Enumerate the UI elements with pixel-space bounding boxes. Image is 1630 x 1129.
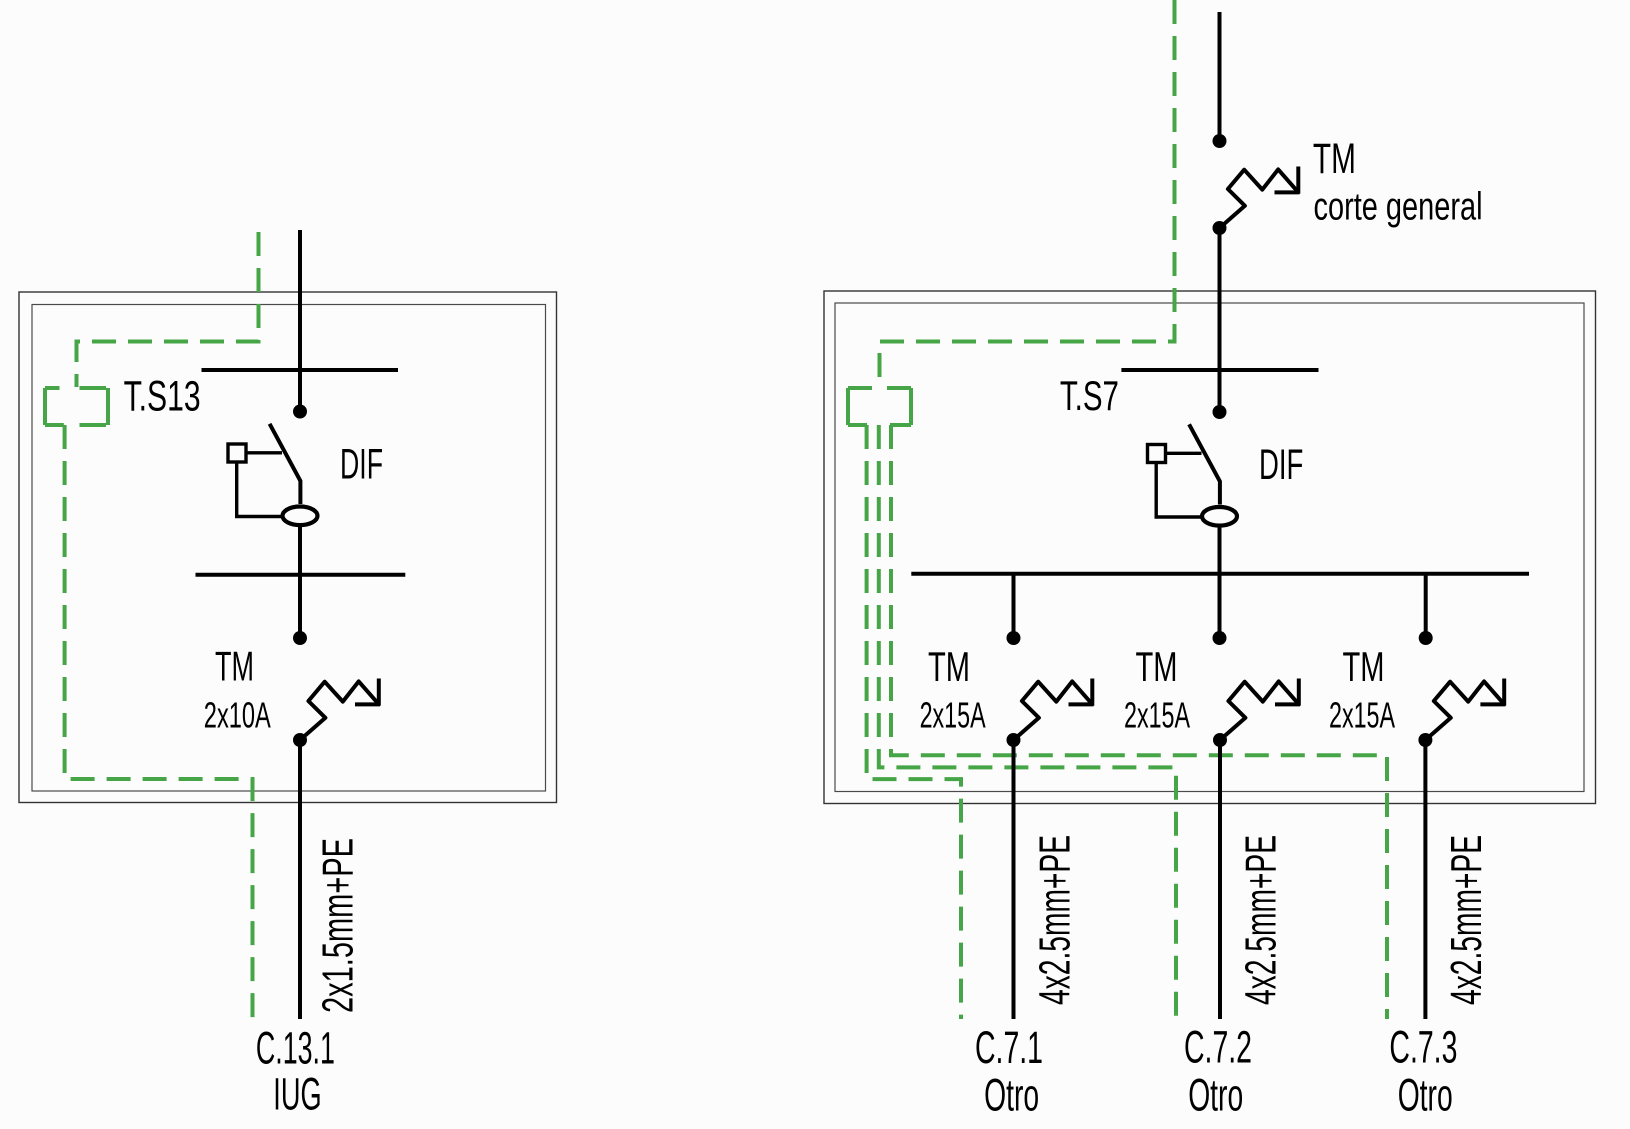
svg-text:corte general: corte general [1314, 185, 1483, 228]
svg-text:2x15A: 2x15A [1329, 695, 1395, 736]
svg-text:2x1.5mm+PE: 2x1.5mm+PE [314, 838, 363, 1013]
svg-text:TM: TM [1313, 135, 1356, 183]
svg-text:4x2.5mm+PE: 4x2.5mm+PE [1237, 835, 1286, 1005]
svg-text:DIF: DIF [1259, 441, 1303, 489]
svg-text:IUG: IUG [273, 1069, 321, 1120]
svg-text:TM: TM [215, 643, 254, 690]
svg-text:TM: TM [1136, 643, 1178, 690]
svg-text:2x15A: 2x15A [1124, 695, 1190, 736]
svg-text:Otro: Otro [1398, 1070, 1453, 1121]
svg-text:T.S13: T.S13 [124, 372, 201, 420]
svg-text:C.7.1: C.7.1 [975, 1022, 1043, 1073]
svg-text:4x2.5mm+PE: 4x2.5mm+PE [1442, 835, 1491, 1005]
svg-text:TM: TM [1343, 643, 1385, 690]
svg-text:Otro: Otro [984, 1070, 1039, 1121]
svg-text:T.S7: T.S7 [1060, 372, 1119, 419]
svg-text:Otro: Otro [1188, 1070, 1243, 1121]
svg-text:4x2.5mm+PE: 4x2.5mm+PE [1031, 835, 1080, 1005]
svg-text:TM: TM [928, 643, 970, 690]
svg-text:C.7.3: C.7.3 [1389, 1022, 1457, 1073]
svg-text:DIF: DIF [340, 441, 383, 489]
svg-text:2x15A: 2x15A [920, 695, 986, 736]
svg-text:C.7.2: C.7.2 [1184, 1022, 1252, 1073]
svg-text:2x10A: 2x10A [204, 694, 271, 735]
svg-text:C.13.1: C.13.1 [256, 1023, 335, 1074]
